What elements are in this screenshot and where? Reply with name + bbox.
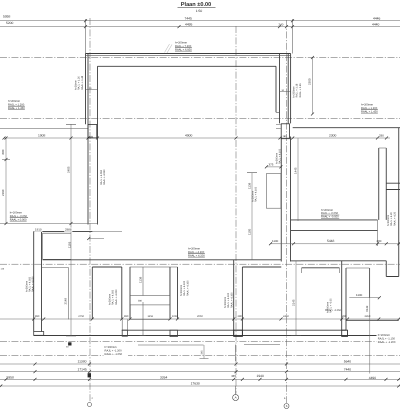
svg-text:RAAL + 4.100: RAAL + 4.100: [230, 292, 233, 308]
svg-text:5640: 5640: [344, 360, 352, 364]
svg-text:3264: 3264: [160, 376, 168, 380]
svg-text:5448: 5448: [327, 239, 335, 243]
svg-text:375: 375: [269, 162, 274, 166]
svg-text:1908: 1908: [38, 134, 46, 138]
white label backgrounds: [104, 344, 129, 358]
svg-text:1445: 1445: [293, 167, 297, 174]
svg-text:2050: 2050: [197, 315, 203, 318]
svg-text:RAJL + -0.05: RAJL + -0.05: [330, 298, 333, 313]
duct shaft box: [266, 174, 281, 209]
svg-text:RAAL + 4.100: RAAL + 4.100: [186, 280, 189, 296]
column pier P4 south wall: [170, 330, 178, 336]
svg-text:1910: 1910: [35, 227, 42, 231]
svg-text:RAAL + 4.050: RAAL + 4.050: [31, 276, 34, 292]
column pier P5 south wall: [234, 330, 243, 336]
svg-text:240: 240: [279, 22, 284, 26]
grid axis bubble 6: [284, 404, 289, 409]
svg-text:RAAL + 1.48: RAAL + 1.48: [81, 75, 84, 90]
column pier P6 south wall: [342, 330, 348, 336]
svg-text:3142: 3142: [365, 305, 369, 312]
svg-text:RAAL + 0.000: RAAL + 0.000: [10, 218, 27, 221]
svg-text:5958: 5958: [7, 375, 15, 379]
svg-text:1060: 1060: [172, 315, 178, 318]
svg-text:2145: 2145: [292, 299, 296, 306]
grid axis bubble A: [233, 395, 239, 401]
svg-text:2750: 2750: [78, 315, 84, 318]
svg-text:4900: 4900: [185, 134, 193, 138]
stair flight box lower: [130, 305, 170, 320]
stair flight box upper: [130, 267, 170, 296]
svg-text:RAAL + 1.45: RAAL + 1.45: [299, 83, 302, 98]
svg-text:RAAL + 4.200: RAAL + 4.200: [115, 289, 118, 305]
svg-text:280: 280: [342, 315, 347, 318]
svg-text:RAAL + -0.050: RAAL + -0.050: [321, 216, 339, 219]
svg-text:7440: 7440: [344, 368, 352, 372]
grid axis bubble 2: [88, 403, 92, 407]
svg-text:1193: 1193: [68, 241, 72, 248]
svg-text:1156: 1156: [148, 315, 154, 318]
svg-text:345: 345: [231, 374, 236, 378]
svg-text:RAJL + 4.100: RAJL + 4.100: [279, 148, 282, 164]
svg-text:345: 345: [201, 350, 204, 355]
svg-text:280: 280: [379, 134, 384, 138]
svg-text:1100: 1100: [272, 239, 279, 243]
svg-text:1138: 1138: [248, 182, 252, 189]
column pier P3 south wall: [122, 330, 127, 336]
column pier P1 in left wall: [88, 125, 97, 138]
svg-text:17630: 17630: [191, 381, 200, 385]
svg-text:2405: 2405: [67, 166, 71, 173]
svg-text:RAJL + 4.100: RAJL + 4.100: [255, 186, 258, 202]
section marker on dim line: [68, 342, 71, 345]
svg-text:4495: 4495: [185, 22, 193, 26]
svg-text:RAAL + 1.450: RAAL + 1.450: [8, 107, 25, 110]
svg-text:2988: 2988: [65, 227, 72, 231]
svg-text:2300: 2300: [308, 78, 312, 85]
svg-text:RAAL + 4.200: RAAL + 4.200: [188, 254, 205, 257]
svg-text:1100: 1100: [356, 293, 363, 297]
svg-text:280: 280: [238, 315, 243, 318]
wall end footing west wing: [34, 332, 44, 336]
svg-text:2300: 2300: [329, 134, 337, 138]
svg-text:RAAL + -1.050: RAAL + -1.050: [105, 353, 123, 356]
column pier P2 in east hall wall: [281, 124, 289, 139]
svg-text:890: 890: [35, 315, 40, 318]
svg-text:2450: 2450: [283, 315, 289, 318]
svg-text:11380: 11380: [78, 360, 87, 364]
svg-text:1138: 1138: [139, 276, 143, 283]
axis 2 chain marker: [88, 373, 91, 377]
svg-text:880: 880: [1, 149, 5, 154]
svg-text:280: 280: [377, 239, 382, 243]
svg-text:4490: 4490: [369, 376, 377, 380]
svg-text:Plaan ±0.00: Plaan ±0.00: [181, 1, 211, 8]
svg-text:17145: 17145: [78, 368, 87, 372]
building walls (exterior and interior): [34, 54, 400, 336]
svg-text:RAAL + 4.950: RAAL + 4.950: [103, 169, 106, 185]
faint marks: [165, 44, 173, 53]
svg-text:1:50: 1:50: [196, 9, 203, 13]
svg-text:1940: 1940: [257, 374, 265, 378]
svg-text:A: A: [235, 396, 237, 400]
svg-text:2190: 2190: [1, 189, 5, 196]
svg-text:RAAL + 4.20: RAAL + 4.20: [393, 211, 396, 226]
svg-text:RAAL + -1.200: RAAL + -1.200: [378, 341, 396, 344]
svg-text:2148: 2148: [63, 298, 67, 305]
svg-text:2450: 2450: [365, 315, 371, 318]
svg-text:7445: 7445: [185, 16, 193, 20]
svg-text:4440: 4440: [372, 22, 380, 26]
svg-text:890: 890: [124, 315, 129, 318]
svg-text:1105: 1105: [248, 228, 252, 235]
svg-text:4446: 4446: [373, 16, 381, 20]
svg-text:5958: 5958: [3, 15, 11, 19]
svg-text:5200: 5200: [6, 21, 14, 25]
svg-text:RAAL + 6.950: RAAL + 6.950: [175, 48, 192, 51]
svg-text:RAAL + 1.450: RAAL + 1.450: [361, 110, 378, 113]
